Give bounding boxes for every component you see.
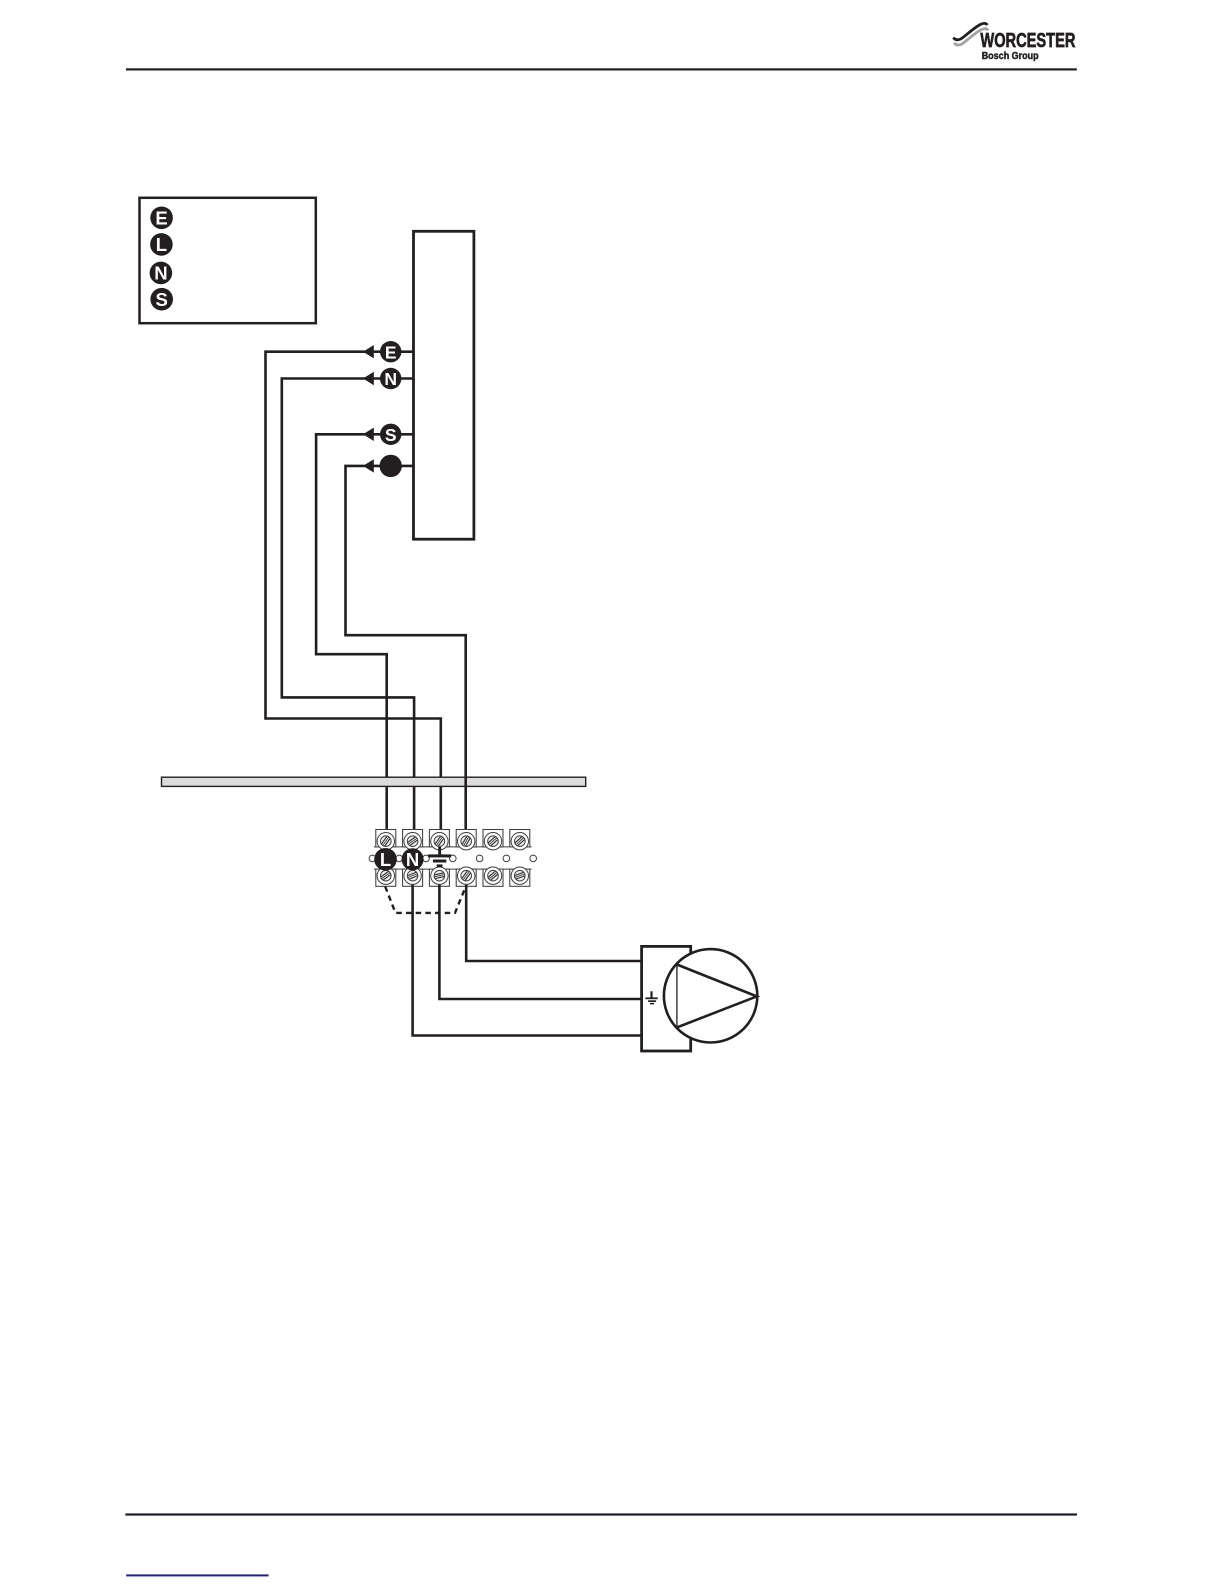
terminal earth symbol — [428, 847, 451, 867]
svg-text:N: N — [154, 263, 167, 284]
svg-text:N: N — [406, 849, 419, 870]
terminal N marker — [402, 848, 424, 870]
svg-text:WORCESTER: WORCESTER — [980, 30, 1075, 52]
arrow terminal S — [363, 424, 401, 445]
wire E (boiler E to earth terminal) — [266, 352, 441, 843]
junction box terminal L — [150, 233, 173, 256]
pump impeller triangle — [677, 965, 757, 1028]
svg-text:S: S — [156, 289, 168, 310]
arrow terminal unmarked — [363, 455, 402, 477]
arrow terminal N — [363, 368, 401, 389]
pump earth symbol — [645, 991, 657, 1004]
pump feed wire earth — [439, 876, 641, 999]
pump feed wire L — [466, 876, 641, 961]
wire S (boiler S to L terminal) — [316, 434, 413, 843]
boiler terminal panel — [414, 231, 474, 539]
Worcester logo swoosh gray stroke — [954, 29, 988, 45]
terminal strip screws top row — [377, 833, 528, 850]
footer rule — [125, 1513, 1077, 1515]
wire unmarked (boiler to 4th terminal) — [346, 466, 466, 843]
junction box terminal S — [150, 288, 173, 311]
terminal strip divider holes — [369, 855, 536, 862]
terminal strip body rails — [374, 847, 532, 869]
svg-text:L: L — [156, 234, 167, 255]
pump connection box — [642, 946, 691, 1051]
terminal strip screws bottom row — [377, 867, 528, 884]
header rule — [126, 68, 1077, 70]
terminal strip top housings — [376, 830, 530, 847]
svg-text:S: S — [385, 425, 397, 445]
junction box terminal E — [150, 207, 173, 230]
svg-text:E: E — [155, 208, 167, 229]
wire N (boiler N to N terminal) — [282, 379, 414, 844]
pump feed wire N — [413, 876, 642, 1036]
svg-text:Bosch Group: Bosch Group — [982, 51, 1039, 62]
svg-text:N: N — [384, 369, 397, 389]
svg-text:E: E — [385, 342, 397, 362]
arrow terminal E — [363, 341, 401, 362]
terminal strip bottom housings — [376, 869, 530, 886]
svg-text:L: L — [380, 849, 391, 870]
pump circle — [664, 949, 757, 1042]
footer link underline — [126, 1574, 268, 1576]
junction box terminal N — [150, 262, 173, 285]
junction box — [140, 198, 316, 323]
dashed link L to terminal 4 — [385, 887, 466, 913]
terminal L marker — [374, 848, 397, 871]
wall panel gray bar — [162, 777, 586, 786]
Worcester logo swoosh dark stroke — [953, 23, 987, 39]
